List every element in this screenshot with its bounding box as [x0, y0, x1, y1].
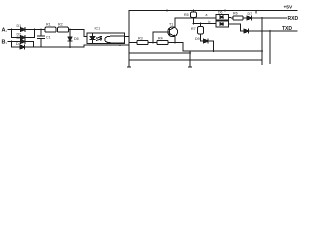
diode D7 label — [248, 12, 253, 16]
enclosure right edge wire — [261, 18, 263, 60]
gate label b — [209, 20, 211, 24]
transistor collector wire — [175, 18, 194, 27]
junction dot — [193, 17, 195, 19]
junction dot — [152, 42, 154, 44]
diode D2 branch wire — [12, 30, 21, 38]
diode D5 — [68, 37, 72, 41]
junction dot — [193, 10, 195, 12]
resistor R3 — [137, 41, 148, 45]
wire to gate D8 — [194, 23, 217, 25]
capacitor C1 bottom lead — [40, 38, 42, 47]
junction tick — [255, 11, 257, 13]
junction dot — [69, 29, 71, 31]
wire R3 to R4 — [148, 42, 157, 44]
svg-text:R7: R7 — [191, 27, 196, 31]
svg-text:D5: D5 — [74, 37, 79, 41]
node TXD label — [282, 26, 292, 32]
diode D9 label — [195, 37, 200, 41]
wire ground drop mid — [189, 51, 191, 60]
wire R4 to drop — [168, 43, 183, 52]
resistor R7 — [198, 27, 204, 35]
svg-text:C1: C1 — [46, 36, 51, 40]
diode D4 branch wire — [12, 42, 21, 48]
wire R5 to +5V rail — [193, 11, 195, 13]
svg-text:R4: R4 — [158, 37, 163, 41]
junction dot — [40, 29, 42, 31]
wire TXD line left stub — [241, 30, 245, 32]
diode D5 label — [74, 37, 79, 41]
wire D3 to lower bus — [25, 42, 34, 48]
wire D9 to rail — [208, 41, 214, 51]
junction dot — [193, 23, 195, 25]
diode D5 top lead — [69, 30, 71, 38]
wire R6 to D7 — [243, 17, 247, 19]
resistor R6 label — [233, 12, 238, 16]
wire input A — [8, 29, 21, 31]
svg-text:A.: A. — [2, 28, 8, 34]
wire A to resistors — [25, 29, 45, 31]
gate D6 box — [216, 14, 229, 20]
wire gate D6 to R6 — [229, 17, 234, 20]
diode D10 on TXD line — [244, 29, 249, 33]
wire D7 to RXD output — [252, 17, 287, 19]
gate D8 box — [216, 21, 229, 27]
diode D4 label — [16, 42, 21, 46]
ground rail right — [183, 50, 262, 52]
wire gate D8 to TXD line — [229, 24, 241, 31]
svg-text:a: a — [206, 13, 208, 17]
gate label a — [206, 13, 208, 17]
junction dot — [224, 10, 226, 12]
transistor T1 — [168, 27, 178, 37]
wire R5 to collector node — [193, 18, 195, 24]
wire R7 top — [200, 24, 202, 27]
junction dot — [11, 29, 13, 31]
diode D1 — [21, 28, 26, 32]
node B input label — [2, 40, 8, 46]
resistor R5 — [191, 12, 197, 18]
svg-text:+5V: +5V — [284, 4, 293, 10]
optocoupler light arrows — [97, 37, 102, 41]
junction dot — [261, 50, 263, 52]
wire R2 to optocoupler LED — [69, 30, 88, 37]
diode D1 label — [17, 24, 22, 28]
junction dot — [166, 10, 168, 12]
svg-text:T1: T1 — [169, 23, 173, 27]
node +5V label — [284, 4, 293, 10]
ground rail left — [129, 52, 190, 54]
ground symbol mid — [188, 60, 191, 67]
svg-text:D9: D9 — [195, 37, 200, 41]
bottom wire to optocoupler — [25, 45, 85, 47]
wire R7 bottom to D9 — [201, 34, 204, 41]
node A input label — [2, 28, 8, 34]
resistor R4 label — [158, 37, 163, 41]
wire opto cathode bottom — [84, 44, 129, 46]
diode D4 — [20, 45, 25, 49]
svg-text:R3: R3 — [138, 37, 143, 41]
junction dot — [200, 23, 202, 25]
resistor R4 — [157, 41, 168, 45]
wire opto emitter output — [129, 42, 137, 44]
svg-text:D7: D7 — [248, 12, 253, 16]
transistor emitter wire — [174, 37, 176, 43]
diode D7 — [247, 16, 252, 20]
junction dot — [34, 29, 36, 31]
svg-text:R5: R5 — [184, 13, 189, 17]
svg-text:R1: R1 — [46, 23, 51, 27]
node RXD label — [288, 16, 299, 22]
ground symbol left — [127, 60, 130, 67]
capacitor C1 label — [46, 36, 51, 40]
transistor T1 label — [169, 23, 173, 27]
capacitor C1 top lead — [40, 30, 42, 37]
resistor R6 — [233, 16, 243, 20]
wire TXD pulldown — [269, 31, 271, 64]
wire D2 to node — [25, 30, 35, 38]
wire TXD line — [249, 30, 298, 32]
junction dot — [119, 44, 121, 46]
+5V top rail — [129, 10, 297, 12]
gate D6 top label — [218, 11, 222, 15]
resistor R5 label — [184, 13, 189, 17]
junction dot — [174, 42, 176, 44]
svg-text:R6: R6 — [233, 12, 238, 16]
capacitor C1 — [38, 36, 45, 38]
svg-text:RXD: RXD — [288, 16, 299, 22]
optocoupler IC1 label — [95, 26, 101, 30]
diode D2 — [21, 36, 26, 40]
optocoupler IC1 box — [87, 33, 125, 44]
svg-text:b: b — [209, 20, 211, 24]
wire collector node to gate D6 — [194, 17, 217, 19]
diode D3 — [21, 40, 26, 44]
diode D3 label — [17, 36, 22, 40]
resistor R7 label — [191, 27, 196, 31]
svg-text:IC1: IC1 — [95, 26, 101, 30]
svg-text:B.: B. — [2, 40, 8, 46]
resistor R3 label — [138, 37, 143, 41]
resistor R1 — [45, 27, 56, 32]
junction dot — [261, 17, 263, 19]
wire input B — [8, 41, 21, 43]
diode D5 bottom lead — [69, 41, 71, 47]
wire opto collector to box edge — [125, 36, 130, 38]
optocoupler phototransistor — [105, 36, 125, 43]
enclosure left edge wire — [128, 11, 130, 61]
resistor R1 label — [46, 23, 51, 27]
resistor R2 — [58, 27, 69, 32]
svg-text:R2: R2 — [58, 23, 63, 27]
enclosure bottom edge wire — [129, 59, 262, 61]
junction dot — [269, 30, 271, 32]
diode D9 — [204, 39, 209, 43]
svg-text:TXD: TXD — [282, 26, 292, 32]
resistor R2 label — [58, 23, 63, 27]
diode D2 label — [17, 33, 22, 37]
junction dot — [213, 50, 215, 52]
optocoupler LED — [90, 34, 95, 43]
wire box edge ground stub — [261, 60, 263, 65]
junction dot — [189, 52, 191, 54]
junction dot — [69, 46, 71, 48]
wire base node — [153, 32, 170, 43]
junction dot — [11, 41, 13, 43]
